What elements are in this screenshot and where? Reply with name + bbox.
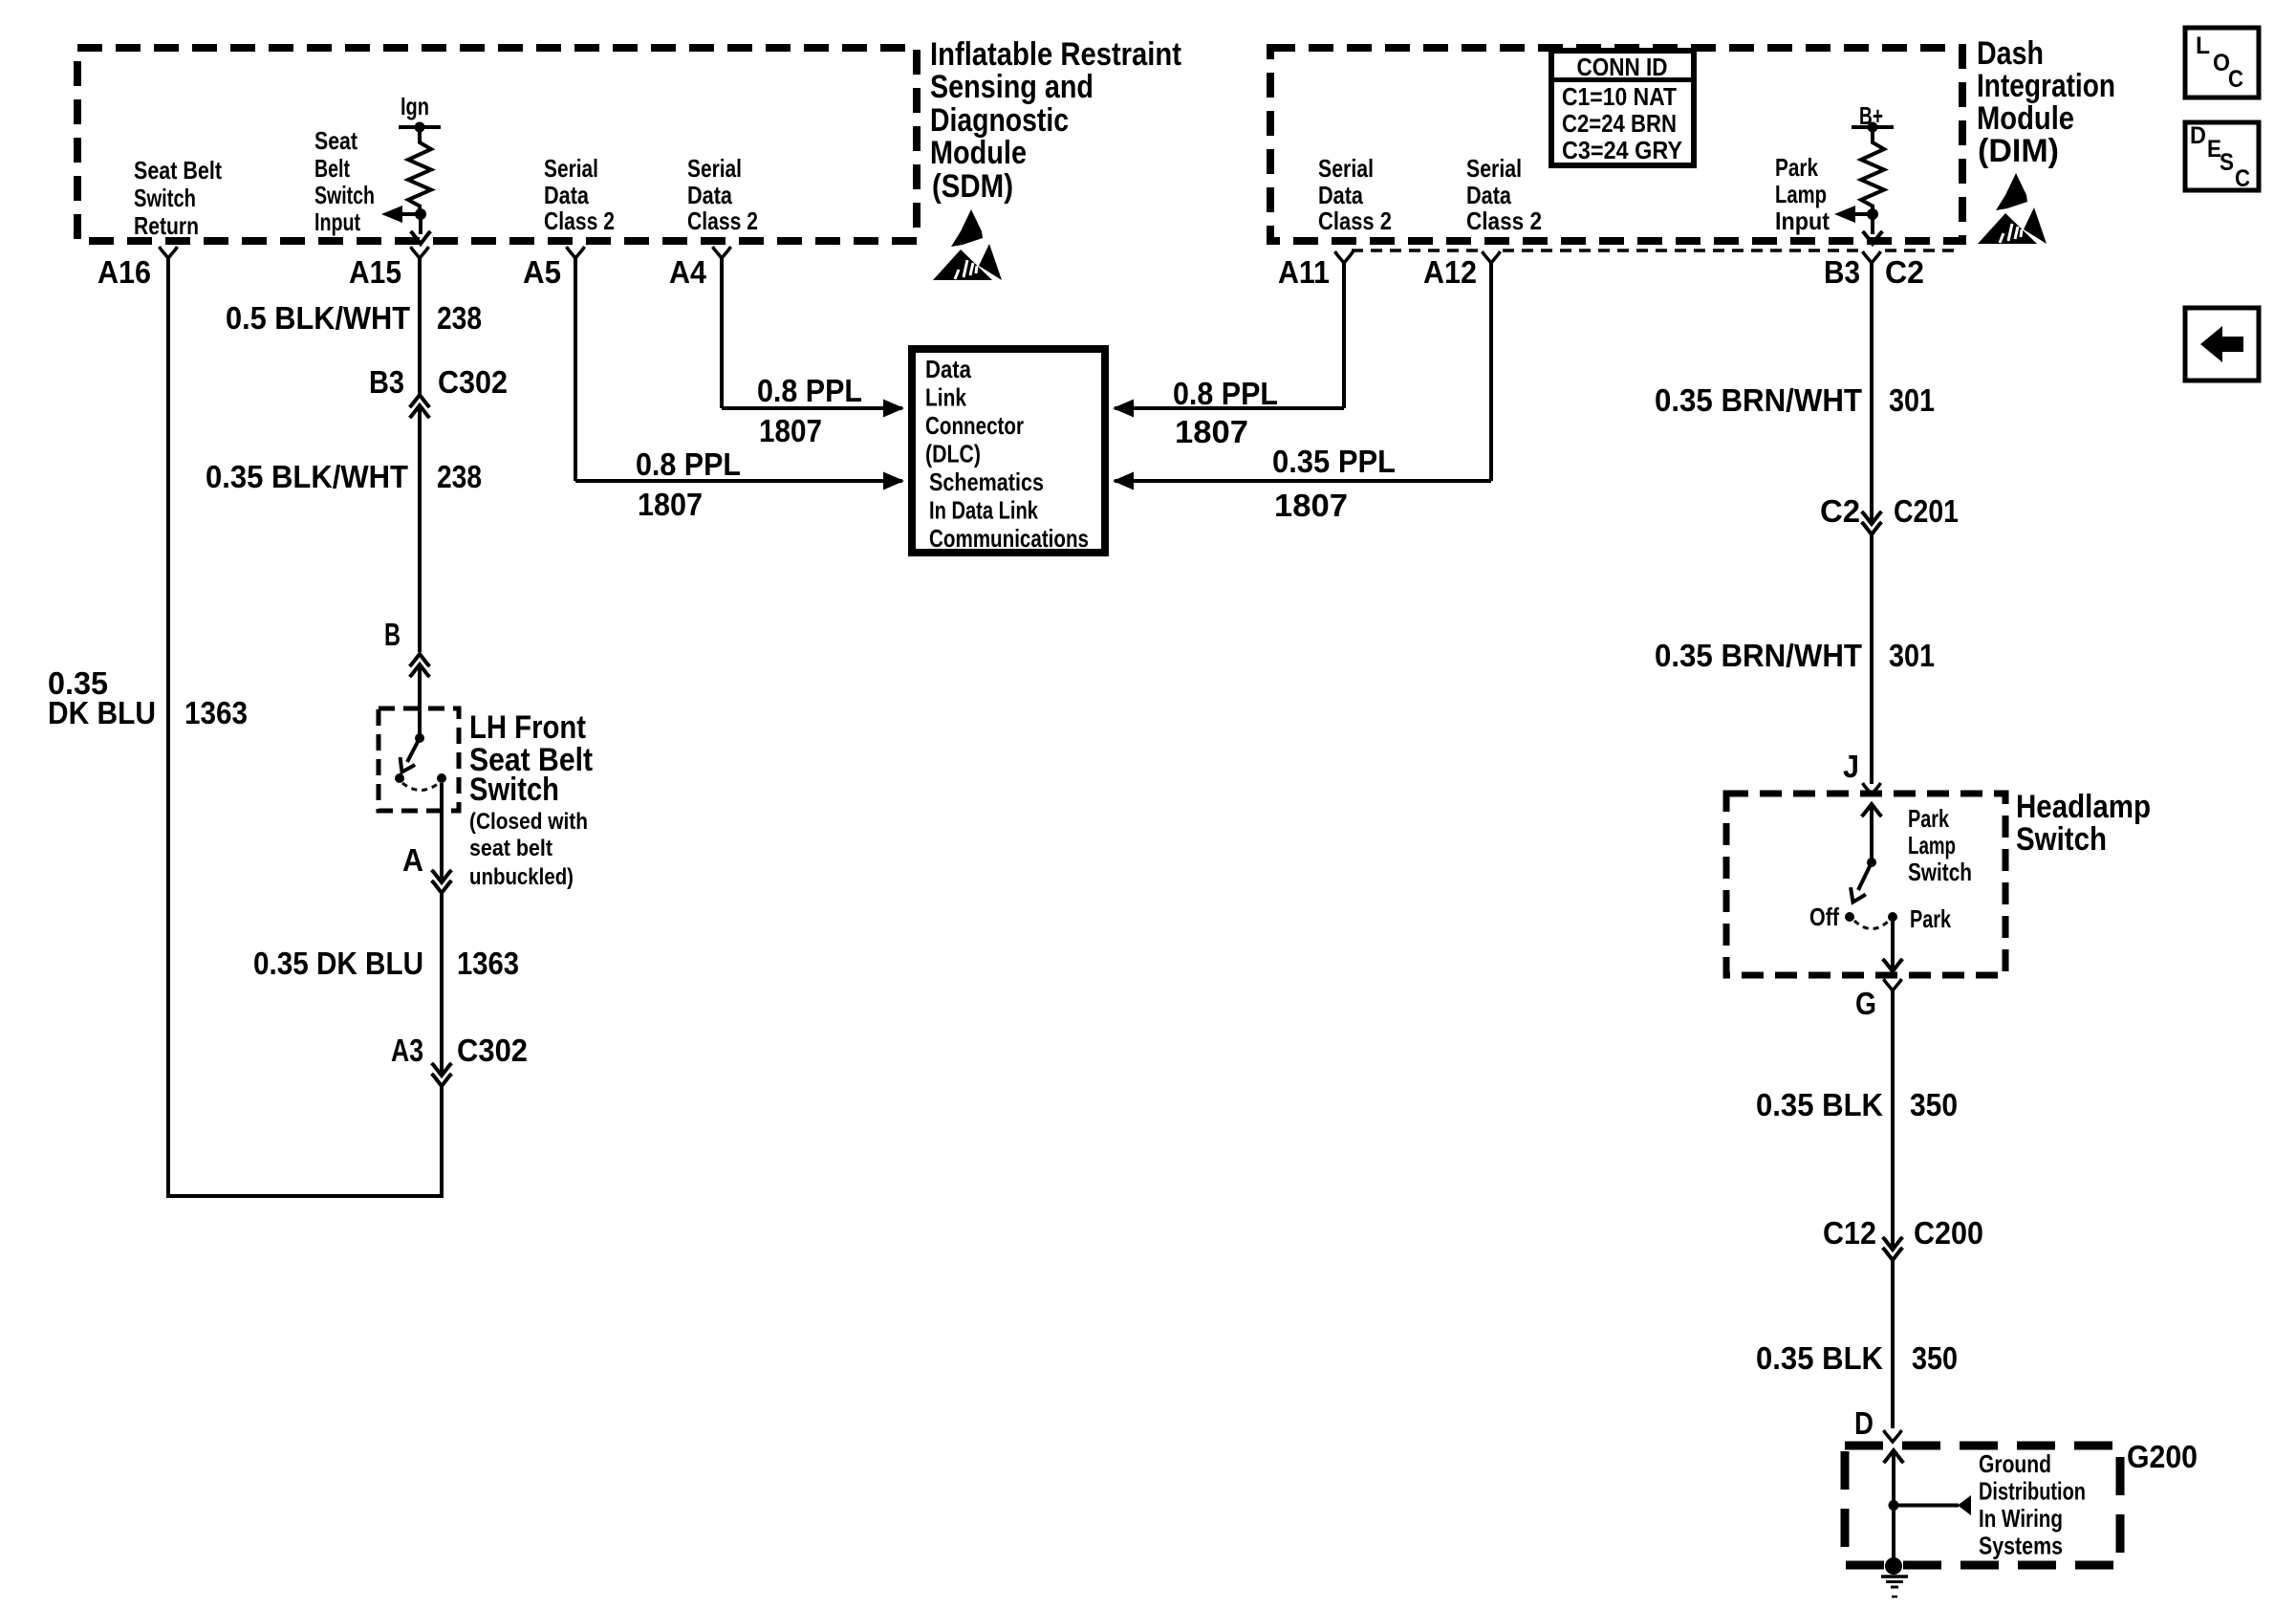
pin A16 connector fork xyxy=(160,247,178,258)
svg-text:A15: A15 xyxy=(349,254,401,290)
ground symbol G200 xyxy=(1881,1557,1908,1597)
svg-text:seat belt: seat belt xyxy=(469,836,552,861)
wire DIM C2 to C201 (0.35 BRN/WHT 301) xyxy=(1870,263,1874,522)
svg-text:G: G xyxy=(1855,986,1876,1021)
svg-text:Data: Data xyxy=(544,181,589,209)
svg-text:A: A xyxy=(402,842,423,878)
wire label 0.35 BRN/WHT 301 (upper) xyxy=(1655,382,1935,418)
svg-text:Connector: Connector xyxy=(925,411,1024,440)
svg-text:350: 350 xyxy=(1912,1340,1958,1376)
svg-text:0.35 BRN/WHT: 0.35 BRN/WHT xyxy=(1655,382,1862,418)
label Ground Distribution In Wiring Systems xyxy=(1979,1449,2086,1560)
wire A4 serial data to DLC (0.8 PPL 1807) xyxy=(722,258,902,408)
svg-text:Lamp: Lamp xyxy=(1775,180,1827,208)
svg-text:Class 2: Class 2 xyxy=(1318,207,1392,235)
pin label Seat Belt Switch Return (SDM A16) xyxy=(134,156,222,240)
pin A5 connector fork xyxy=(567,247,585,258)
svg-text:C2: C2 xyxy=(1885,254,1924,290)
power node Ign xyxy=(399,92,441,133)
ground G200 dashed box xyxy=(1845,1446,2120,1565)
wire A3 down to return loop xyxy=(440,1086,444,1196)
svg-text:(DIM): (DIM) xyxy=(1978,133,2059,169)
navigation box with left arrow xyxy=(2185,308,2259,381)
svg-text:C2=24 BRN: C2=24 BRN xyxy=(1562,109,1677,138)
svg-text:A16: A16 xyxy=(97,254,151,290)
arrow into DLC (A4 wire) xyxy=(883,400,904,418)
module DIM label xyxy=(1977,35,2115,169)
svg-text:B3: B3 xyxy=(1824,254,1860,290)
svg-text:Seat Belt: Seat Belt xyxy=(134,156,222,185)
node junction and signal arrow (Park Lamp Input) xyxy=(1834,206,1883,244)
svg-text:Data: Data xyxy=(925,355,971,383)
svg-text:350: 350 xyxy=(1910,1087,1958,1122)
connector C200 pin C12 (in-line, down) xyxy=(1823,1215,1983,1260)
headlamp switch dashed travel arc xyxy=(1854,921,1889,929)
svg-text:Class 2: Class 2 xyxy=(544,207,615,235)
svg-text:Switch: Switch xyxy=(134,184,196,212)
svg-text:Inflatable Restraint: Inflatable Restraint xyxy=(930,36,1181,73)
svg-text:C302: C302 xyxy=(457,1033,528,1068)
headlamp switch feed wire with up arrow xyxy=(1862,804,1882,867)
svg-text:1363: 1363 xyxy=(184,695,248,730)
DIM connector strip (thin dashed line) xyxy=(1352,249,1960,252)
DLC text block xyxy=(925,355,1089,553)
svg-text:Dash: Dash xyxy=(1977,35,2044,72)
svg-text:Park: Park xyxy=(1775,153,1818,182)
wire B to LH front seat belt switch xyxy=(418,666,422,708)
wire label 0.35 BRN/WHT 301 (lower) xyxy=(1655,638,1935,673)
svg-text:1807: 1807 xyxy=(1274,488,1348,523)
svg-text:(SDM): (SDM) xyxy=(932,168,1013,205)
DLC box (Data Link Connector) xyxy=(912,349,1105,553)
pin G connector fork xyxy=(1884,979,1902,990)
svg-text:Park: Park xyxy=(1910,904,1951,933)
svg-text:C201: C201 xyxy=(1894,493,1959,529)
svg-text:A12: A12 xyxy=(1423,254,1477,290)
pin label Serial Data Class 2 (DIM A12) xyxy=(1466,154,1542,235)
svg-text:Switch: Switch xyxy=(1908,858,1972,886)
resistor R-SDM (seat belt switch input pull-up) xyxy=(408,131,431,211)
svg-text:301: 301 xyxy=(1889,638,1935,673)
svg-text:Communications: Communications xyxy=(929,524,1089,553)
pin D connector fork xyxy=(1884,1430,1902,1442)
svg-text:D: D xyxy=(1854,1405,1874,1441)
svg-text:Sensing and: Sensing and xyxy=(930,69,1094,105)
wire label 0.8 PPL 1807 (A4) xyxy=(757,373,862,448)
power node B+ xyxy=(1852,101,1894,133)
headlamp switch movable arm with arrowhead xyxy=(1846,862,1872,905)
wire label 0.5 BLK/WHT 238 xyxy=(226,300,482,336)
svg-text:G200: G200 xyxy=(2127,1439,2198,1474)
svg-text:Park: Park xyxy=(1908,804,1949,833)
module label LH Front Seat Belt Switch xyxy=(469,709,593,890)
switch S1 feed wire and pivot xyxy=(415,708,424,743)
arrow into DLC (A5 wire) xyxy=(883,472,904,490)
wire C200 to pin D (0.35 BLK 350) xyxy=(1891,1260,1895,1428)
CONN ID table xyxy=(1551,51,1694,165)
svg-text:In Wiring: In Wiring xyxy=(1979,1504,2063,1533)
svg-text:Input: Input xyxy=(1775,207,1830,235)
svg-text:Ground: Ground xyxy=(1979,1449,2051,1478)
connector pin A (in-line, down) xyxy=(402,842,452,893)
svg-text:Integration: Integration xyxy=(1977,68,2115,104)
svg-text:Belt: Belt xyxy=(314,154,350,183)
svg-text:C200: C200 xyxy=(1914,1215,1983,1251)
wire label 0.35 DK BLU 1363 (left) xyxy=(48,665,248,730)
switch S1 output contact xyxy=(437,773,446,783)
svg-text:Serial: Serial xyxy=(1466,154,1522,183)
svg-text:0.35 BRN/WHT: 0.35 BRN/WHT xyxy=(1655,638,1862,673)
svg-text:Data: Data xyxy=(687,181,732,209)
svg-text:(DLC): (DLC) xyxy=(925,440,981,468)
module SDM box (Inflatable Restraint Sensing and Diagnostic Module) xyxy=(77,48,917,241)
node junction and signal arrow (Seat Belt Switch Input) xyxy=(381,206,431,244)
pin label Park Lamp Input (DIM B3) xyxy=(1775,153,1830,235)
svg-text:Serial: Serial xyxy=(544,154,598,183)
G200 branch to other circuits xyxy=(1894,1495,1971,1515)
svg-text:Distribution: Distribution xyxy=(1979,1477,2086,1506)
pin label Seat Belt Switch Input (SDM A15) xyxy=(314,126,375,236)
wire label 0.35 DK BLU 1363 xyxy=(253,946,519,981)
svg-text:unbuckled): unbuckled) xyxy=(469,864,574,890)
svg-text:D: D xyxy=(2190,122,2206,149)
svg-text:Module: Module xyxy=(930,135,1027,171)
svg-text:0.8 PPL: 0.8 PPL xyxy=(757,373,862,408)
svg-text:Switch: Switch xyxy=(314,181,375,209)
svg-text:A5: A5 xyxy=(523,254,561,290)
reference box LOC xyxy=(2185,28,2259,98)
pin J connector fork xyxy=(1863,783,1881,794)
switch S1 open contact (unbuckled position) xyxy=(395,773,404,783)
connector C302 pin B3 (in-line, up) xyxy=(369,364,508,418)
svg-text:Return: Return xyxy=(134,211,199,240)
G200 junction node xyxy=(1889,1500,1899,1511)
svg-text:In Data Link: In Data Link xyxy=(929,496,1038,525)
reference box DESC xyxy=(2185,122,2259,192)
svg-text:0.35 BLK/WHT: 0.35 BLK/WHT xyxy=(206,459,408,494)
svg-text:Class 2: Class 2 xyxy=(1466,207,1542,235)
svg-text:Data: Data xyxy=(1466,181,1511,209)
switch S1 LH Front Seat Belt Switch dashed box xyxy=(379,708,459,811)
svg-text:Seat: Seat xyxy=(314,126,357,155)
wire label 0.35 PPL 1807 (A12) xyxy=(1272,444,1396,523)
svg-text:C12: C12 xyxy=(1823,1215,1876,1251)
svg-text:Module: Module xyxy=(1977,100,2074,137)
svg-text:Headlamp: Headlamp xyxy=(2016,789,2151,825)
svg-text:Link: Link xyxy=(925,383,966,412)
wire A to C302 (0.35 DK BLU 1363) xyxy=(440,893,444,1075)
svg-text:Diagnostic: Diagnostic xyxy=(930,102,1069,139)
svg-text:B3: B3 xyxy=(369,364,404,400)
svg-text:238: 238 xyxy=(437,459,482,494)
pin label Serial Data Class 2 (DIM A11) xyxy=(1318,154,1392,235)
svg-text:Serial: Serial xyxy=(1318,154,1374,183)
svg-text:CONN ID: CONN ID xyxy=(1577,53,1668,81)
pin A4 connector fork xyxy=(713,247,731,258)
svg-text:Switch: Switch xyxy=(2016,821,2107,858)
wire park contact to pin G with down arrow xyxy=(1883,921,1903,971)
svg-text:1807: 1807 xyxy=(638,487,703,522)
wire label 0.35 BLK 350 (upper) xyxy=(1756,1087,1958,1122)
G200 internal wire with up arrow xyxy=(1884,1450,1904,1561)
pin A15 connector fork xyxy=(411,247,429,258)
wire C201 to headlamp switch pin J (0.35 BRN/WHT 301) xyxy=(1870,534,1874,784)
wire A16 (0.35 DK BLU 1363) vertical xyxy=(166,258,170,1194)
svg-text:0.35 BLK: 0.35 BLK xyxy=(1756,1340,1883,1376)
svg-text:C: C xyxy=(2228,66,2243,93)
wire A5 serial data to DLC (0.8 PPL 1807) xyxy=(575,258,902,481)
svg-text:A11: A11 xyxy=(1278,254,1330,290)
svg-text:0.35 DK BLU: 0.35 DK BLU xyxy=(253,946,423,981)
svg-text:0.8 PPL: 0.8 PPL xyxy=(636,446,741,482)
module SDM label xyxy=(930,36,1181,205)
connector C201 pin C2 (in-line, down) xyxy=(1820,493,1959,534)
svg-text:(Closed with: (Closed with xyxy=(469,809,588,835)
wire A15 to C302 (0.5 BLK/WHT 238) xyxy=(418,258,422,394)
svg-text:C1=10 NAT: C1=10 NAT xyxy=(1562,82,1677,111)
svg-text:C3=24 GRY: C3=24 GRY xyxy=(1562,136,1682,164)
arrow into DLC (A11 wire) xyxy=(1113,400,1134,418)
svg-text:A3: A3 xyxy=(391,1033,423,1068)
connector pin B (in-line, up) xyxy=(384,617,430,677)
svg-text:DK BLU: DK BLU xyxy=(48,695,156,730)
svg-text:Data: Data xyxy=(1318,181,1363,209)
ESD symbol (SDM) xyxy=(933,209,1002,280)
wire label 0.8 PPL 1807 (A5) xyxy=(636,446,741,522)
svg-text:A4: A4 xyxy=(669,254,707,290)
switch S1 movable arm with arrowhead xyxy=(395,738,420,775)
svg-text:238: 238 xyxy=(437,300,482,336)
wire label 0.35 BLK 350 (lower) xyxy=(1756,1340,1958,1376)
svg-text:Systems: Systems xyxy=(1979,1532,2063,1560)
pin A11 connector fork xyxy=(1335,251,1354,263)
svg-text:Schematics: Schematics xyxy=(929,468,1044,496)
wire G to C200 (0.35 BLK 350) xyxy=(1891,990,1895,1248)
wire C302 to B (0.35 BLK/WHT 238) xyxy=(418,407,422,652)
svg-text:L: L xyxy=(2196,33,2210,59)
svg-text:0.8 PPL: 0.8 PPL xyxy=(1173,376,1278,411)
wire A12 serial data to DLC (0.35 PPL 1807) xyxy=(1115,263,1491,481)
svg-text:0.35 BLK: 0.35 BLK xyxy=(1756,1087,1883,1122)
switch S1 dashed travel arc xyxy=(402,783,439,791)
svg-text:Lamp: Lamp xyxy=(1908,831,1956,859)
wire A11 serial data to DLC (0.8 PPL 1807) xyxy=(1115,263,1344,408)
svg-text:Class 2: Class 2 xyxy=(687,207,758,235)
wire switch output to pin A xyxy=(440,783,444,881)
arrow into DLC (A12 wire) xyxy=(1113,472,1134,490)
headlamp switch Off contact xyxy=(1809,903,1854,931)
wire label 0.8 PPL 1807 (A11) xyxy=(1173,376,1278,449)
svg-text:Input: Input xyxy=(314,207,360,236)
svg-text:1807: 1807 xyxy=(1175,414,1248,449)
module DIM box (Dash Integration Module) xyxy=(1270,48,1962,241)
svg-text:LH Front: LH Front xyxy=(469,709,586,746)
svg-text:0.5 BLK/WHT: 0.5 BLK/WHT xyxy=(226,300,410,336)
pin label Serial Data Class 2 (SDM A5) xyxy=(544,154,615,235)
wire return loop bottom horizontal xyxy=(166,1194,444,1198)
svg-text:Serial: Serial xyxy=(687,154,742,183)
resistor R-DIM (park lamp input pull-up) xyxy=(1861,131,1884,211)
wire label 0.35 BLK/WHT 238 xyxy=(206,459,482,494)
svg-text:Switch: Switch xyxy=(469,772,559,808)
connector C302 pin A3 (in-line, down) xyxy=(391,1033,528,1086)
svg-text:C302: C302 xyxy=(438,364,508,400)
label Park Lamp Switch xyxy=(1908,804,1972,886)
pin B3/C2 connector fork (DIM) xyxy=(1863,251,1881,263)
module Headlamp Switch dashed box xyxy=(1726,794,2005,975)
module label Headlamp Switch xyxy=(2016,789,2151,858)
svg-text:J: J xyxy=(1843,749,1859,784)
svg-text:Ign: Ign xyxy=(401,92,429,120)
svg-text:Off: Off xyxy=(1809,903,1839,931)
svg-text:301: 301 xyxy=(1889,382,1935,418)
svg-text:C2: C2 xyxy=(1820,493,1860,529)
svg-text:C: C xyxy=(2235,165,2250,192)
svg-text:0.35 PPL: 0.35 PPL xyxy=(1272,444,1396,479)
ESD symbol (DIM) xyxy=(1978,173,2047,244)
pin label Serial Data Class 2 (SDM A4) xyxy=(687,154,758,235)
svg-text:S: S xyxy=(2220,149,2234,176)
svg-text:B: B xyxy=(384,617,401,652)
headlamp switch Park contact xyxy=(1888,904,1951,933)
pin A12 connector fork xyxy=(1483,251,1501,263)
svg-text:1807: 1807 xyxy=(759,413,822,448)
svg-text:1363: 1363 xyxy=(457,946,519,981)
